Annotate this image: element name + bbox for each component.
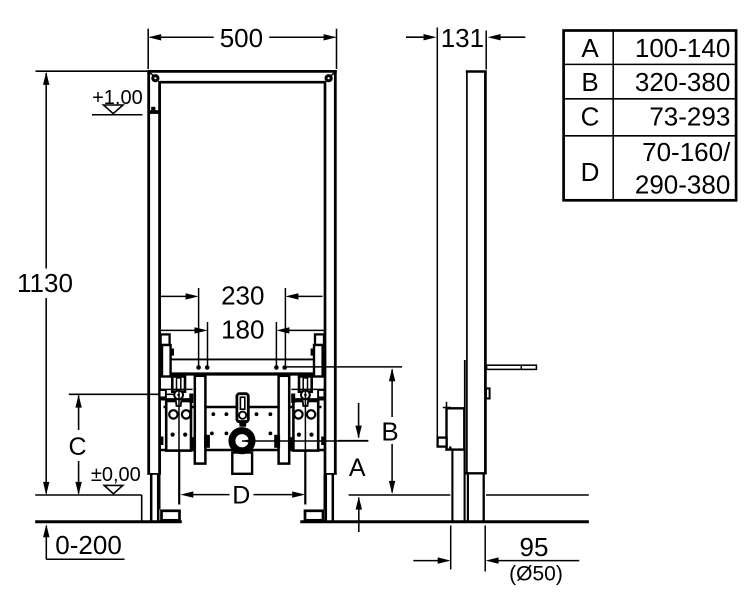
table row B: [581, 67, 730, 97]
svg-text:A: A: [581, 33, 599, 63]
svg-text:230: 230: [221, 281, 264, 311]
dim 230 extension lines: [198, 288, 200, 366]
side view rail foot tube: [468, 474, 484, 521]
frame left rail outer stroke: [147, 70, 150, 475]
left hanger top box: [161, 334, 170, 345]
dim 131: [406, 23, 525, 53]
right bracket centerline: [304, 391, 306, 451]
right hanger black side fill: [322, 345, 326, 377]
dim C dimension line with arrows: [68, 395, 86, 495]
left bracket box: [166, 401, 191, 451]
dim 230: [161, 281, 323, 311]
side view bracket cross tick: [443, 402, 451, 409]
left bracket box holes: [169, 410, 190, 418]
right foot pad: [305, 511, 323, 521]
dim A upper arrow: [355, 403, 361, 439]
svg-text:180: 180: [221, 315, 264, 345]
left bracket keyhole slot: [176, 399, 182, 407]
dim 1130 dimension line with arrows: [17, 72, 73, 495]
side view rail left edge outer stroke: [464, 360, 466, 474]
frame left rail inner stroke: [158, 81, 161, 475]
right bracket box holes: [294, 410, 315, 418]
side view bracket box: [447, 408, 465, 449]
dim C extension line: [69, 393, 174, 395]
svg-text:D: D: [581, 157, 600, 187]
black tab at right rail inner edge: [321, 437, 324, 446]
plate rivet dots top row: [211, 412, 272, 416]
left bracket leg tube right edge: [178, 451, 180, 505]
mounting plate top edge: [164, 406, 322, 408]
left bracket band top edge: [159, 388, 192, 390]
right bracket slot piece: [299, 376, 312, 391]
right bracket band top edge: [291, 388, 324, 390]
table: [564, 31, 737, 201]
svg-text:C: C: [581, 102, 600, 132]
right bracket bottom dots: [297, 433, 314, 437]
ground line segment right: [300, 520, 589, 523]
right bracket leg tube right edge: [324, 475, 326, 510]
side view rail bottom line: [464, 472, 487, 474]
right bracket black chunk bottom left: [289, 437, 294, 450]
svg-text:B: B: [381, 417, 398, 447]
center slider inner slot: [240, 397, 244, 409]
corner screw left diagonal: [149, 72, 153, 76]
svg-text:A: A: [349, 454, 366, 482]
dim B dimension line: [381, 368, 398, 494]
left bracket leg tube left edge: [158, 475, 160, 510]
side view water pipe arm: [487, 365, 537, 369]
plate rivet dots bottom row: [210, 432, 272, 436]
dim 500 extension lines: [147, 29, 149, 69]
crossbar bolts: [196, 365, 287, 370]
dim 0-200: [43, 524, 124, 560]
dim 95 extension lines: [450, 526, 452, 570]
drain center leader arrowhead: [242, 438, 254, 444]
crossbar mid line extending right as B reference: [285, 366, 402, 368]
left bracket centerline: [178, 391, 180, 451]
floor line segment right of frame: [349, 494, 451, 496]
left bracket black chunk bottom right: [191, 437, 196, 450]
right bracket black bar at band level: [291, 394, 295, 404]
center slider outer: [237, 394, 248, 422]
left bracket clip: [160, 390, 166, 397]
black tab right of left strut: [204, 435, 210, 448]
svg-text:B: B: [581, 67, 598, 97]
dim A reference line: [338, 440, 368, 442]
svg-text:1130: 1130: [17, 268, 73, 298]
right bracket keyhole slot: [302, 399, 308, 407]
drain center leader line: [242, 440, 368, 442]
svg-text:±0,00: ±0,00: [91, 464, 141, 486]
table row D: [581, 137, 731, 199]
left bracket keyhole circle: [174, 391, 183, 400]
svg-text:290-380: 290-380: [635, 169, 730, 199]
ground line segment left: [35, 520, 182, 523]
frame right rail outer stroke: [334, 70, 337, 475]
left strut: [195, 376, 206, 464]
level tick on left rail: [148, 107, 159, 114]
left foot pad: [162, 511, 180, 521]
dim A lower arrow: [356, 497, 362, 532]
frame right rail inner stroke: [324, 81, 327, 475]
dim 131 right extension line: [485, 31, 487, 70]
frame top rail inner edge: [160, 81, 326, 84]
dim 1130 top reference line: [36, 70, 148, 72]
right bracket slot piece inner slot: [303, 378, 307, 391]
right hanger top box: [315, 334, 324, 345]
svg-text:D: D: [232, 481, 250, 509]
drain ring outer: [230, 428, 255, 453]
center slider circle: [239, 412, 246, 419]
floor step vertical connector: [141, 495, 143, 522]
level mark ±0,00: [91, 464, 141, 494]
mounting plate bottom edge: [159, 449, 326, 452]
right hanger tall box: [314, 345, 323, 377]
svg-text:320-380: 320-380: [635, 67, 730, 97]
table row A: [581, 33, 730, 63]
side view bracket foot tube: [452, 450, 464, 521]
right bracket clip: [318, 390, 324, 397]
svg-text:C: C: [68, 433, 86, 461]
side view wall line: [436, 28, 438, 447]
left foot tube: [147, 474, 159, 521]
right bracket box: [293, 401, 318, 451]
corner screw right: [325, 74, 333, 82]
level mark +1,00: [92, 87, 143, 115]
right bracket leg tube left edge: [304, 451, 306, 505]
right hanger black square: [311, 349, 314, 356]
table row C: [581, 102, 731, 132]
left bracket band bottom edge: [159, 398, 192, 400]
svg-text:73-293: 73-293: [649, 102, 730, 132]
left hanger black side fill: [159, 345, 163, 377]
side view wall foot square: [438, 438, 447, 447]
black tab left of right strut: [274, 435, 280, 448]
dim 180: [160, 315, 324, 345]
left bracket bottom dots: [171, 433, 188, 437]
crossbar top edge: [160, 358, 324, 360]
dim D: [180, 481, 305, 509]
left hanger black square: [171, 349, 174, 356]
center slider black foot: [239, 420, 247, 426]
corner screw right diagonal: [331, 72, 335, 76]
dim 180 extension lines: [207, 322, 209, 366]
right strut: [279, 376, 290, 464]
side view rail right edge: [484, 71, 487, 474]
svg-text:131: 131: [441, 23, 484, 53]
right bracket band bottom edge: [291, 398, 324, 400]
svg-text:(Ø50): (Ø50): [509, 563, 563, 586]
svg-text:0-200: 0-200: [55, 530, 122, 560]
side view bracket dot: [449, 446, 452, 449]
left hanger tall box: [162, 345, 171, 377]
svg-text:95: 95: [520, 532, 549, 562]
crossbar bottom edge: [160, 372, 324, 375]
left bracket slot piece: [172, 376, 185, 391]
svg-text:70-160/: 70-160/: [642, 137, 731, 167]
dim 500 dimension line: [148, 23, 336, 53]
left bracket slot piece inner slot: [177, 378, 181, 391]
floor line segment left: [35, 494, 142, 496]
floor line segment right of side view: [486, 494, 589, 496]
side view rail left edge inner stroke: [466, 72, 468, 474]
frame top rail outer edge: [147, 70, 337, 73]
drain pipe below: [232, 453, 252, 474]
corner screw left: [151, 74, 159, 82]
right bracket keyhole circle: [301, 391, 310, 400]
svg-text:500: 500: [220, 23, 263, 53]
right foot tube: [324, 474, 336, 521]
dim 95: [413, 532, 579, 585]
black tab at left rail inner edge: [160, 437, 163, 446]
drain ring annulus: [233, 431, 252, 450]
side view small tab on rail: [486, 388, 490, 398]
svg-text:100-140: 100-140: [635, 33, 730, 63]
side view rail top edge: [466, 70, 487, 73]
left bracket black bar at band level: [189, 394, 193, 404]
